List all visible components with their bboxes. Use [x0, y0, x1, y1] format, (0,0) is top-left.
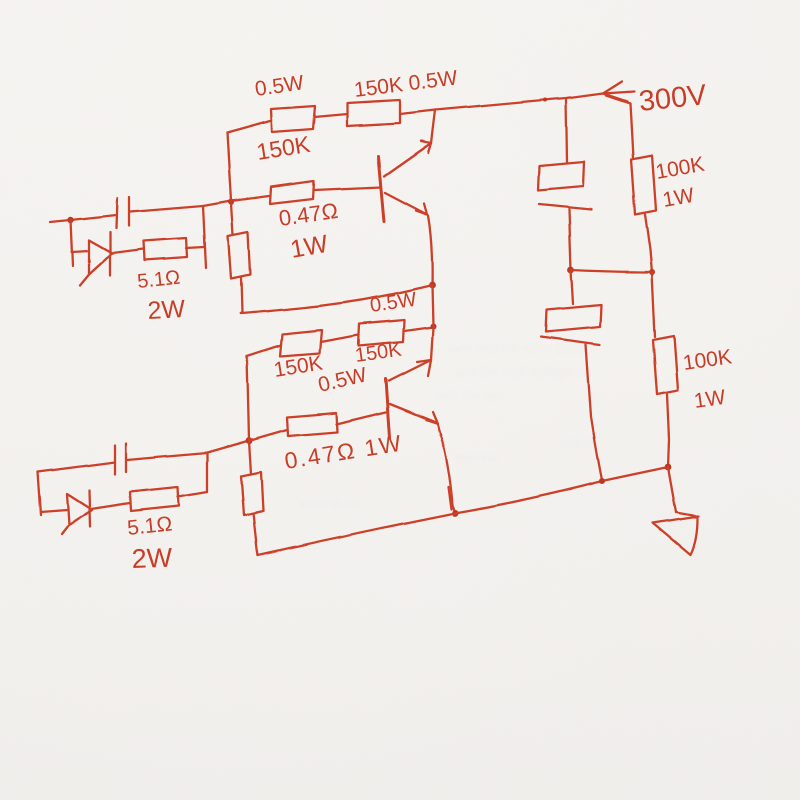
wire R4 to R5 — [321, 335, 358, 342]
svg-text:2W: 2W — [131, 543, 173, 574]
svg-text:5.1Ω: 5.1Ω — [126, 512, 173, 540]
wire node B down to VR1 — [231, 204, 233, 235]
resistor R8 100K 1W (lower right) — [653, 336, 678, 394]
wire R5.1 to right vert — [186, 247, 204, 248]
wire R6 to base Q2 — [336, 412, 386, 424]
resistor R4 150K 0.5W (lower feedback) — [280, 330, 322, 356]
wire R2 to top corner — [400, 110, 435, 114]
capacitor C1 left plate — [116, 198, 117, 228]
wire corner to R1 — [227, 121, 270, 133]
wire node H down to C4 — [571, 270, 573, 304]
wire node G down to R8 — [652, 272, 655, 337]
resistor R3 0.47ohm 1W (upper base) — [270, 181, 314, 204]
wire collector diagonal Q2 — [389, 360, 431, 381]
wire C1 to node A — [130, 206, 203, 212]
wire VR2 to bottom rail — [253, 513, 258, 555]
svg-text:then the: then the — [455, 451, 499, 465]
node A junction dot — [68, 217, 74, 223]
emitter diagonal Q2 — [390, 404, 437, 423]
wire collector diagonal Q1 — [384, 143, 431, 176]
resistor 5.1ohm 2W (lower) — [130, 487, 179, 511]
node G junction dot — [649, 269, 655, 275]
diode D1 — [80, 232, 112, 285]
capacitor C3 top plate box — [538, 162, 584, 190]
svg-text:sure that the other parts: sure that the other parts — [447, 340, 586, 355]
wire input lower left — [38, 462, 115, 472]
transistor Q1 bar — [378, 156, 384, 222]
svg-text:1W: 1W — [692, 386, 727, 413]
capacitor C4 bottom plate — [541, 337, 600, 345]
wire bottom rail — [258, 467, 668, 555]
wire R7 to node G — [645, 214, 652, 272]
resistor R6 0.47ohm 1W (lower base) — [287, 413, 337, 436]
wire C2 to node D — [127, 441, 249, 460]
svg-text:more of the: more of the — [300, 497, 361, 511]
wire node D up feedback (lower) — [247, 356, 249, 440]
svg-text:2W: 2W — [147, 295, 186, 325]
arrow head 300V supply — [603, 81, 634, 101]
wire to diode D1 — [72, 251, 89, 252]
wire node B up to feedback row — [227, 133, 231, 201]
capacitor C2 left plate — [114, 445, 116, 474]
resistor R5 150K 0.5W (lower feedback) — [358, 320, 404, 346]
node D junction dot — [246, 438, 253, 445]
wire C4 to bottom rail — [586, 345, 602, 480]
wire node C to node E — [432, 285, 433, 326]
arrow on collector Q2 — [417, 360, 431, 376]
wire lower bypass right vert — [206, 453, 208, 492]
diode D2 — [62, 490, 92, 534]
resistor R2 150K 0.5W (upper feedback) — [347, 100, 400, 126]
arrow on emitter Q2 — [426, 412, 438, 424]
wire rail down to C3 — [566, 98, 567, 162]
svg-text:and the high voltage on: and the high voltage on — [455, 364, 590, 379]
capacitor C3 bottom plate — [539, 204, 591, 209]
node H junction dot — [568, 267, 575, 274]
node I junction dot — [599, 478, 605, 484]
wire collector drop Q1 — [431, 110, 435, 143]
node B junction dot — [228, 199, 234, 205]
transistor Q2 bar — [386, 379, 390, 438]
wire node D to R6 — [249, 430, 287, 441]
rail ink blob — [543, 98, 547, 102]
wire R5.1 lower to right vert — [178, 492, 207, 497]
wire to diode D2 — [41, 510, 67, 512]
wire D2 to R 5.1 lower — [91, 503, 130, 509]
capacitor C1 right plate — [128, 197, 130, 226]
resistor 5.1ohm 2W (upper) — [143, 238, 187, 260]
wire right vert of bypass loop — [203, 206, 206, 268]
wire node A to node B — [203, 201, 231, 206]
wire D1 to R 5.1 — [112, 249, 143, 253]
wire top supply rail — [435, 93, 603, 110]
wire node D down to VR2 — [249, 441, 251, 474]
wire R3 to base Q1 — [314, 187, 381, 190]
node F junction dot — [452, 510, 459, 517]
node C junction dot — [429, 282, 436, 289]
wire node B to R3 — [231, 196, 269, 201]
svg-text:5.1Ω: 5.1Ω — [136, 267, 181, 293]
wire R8 to node J — [667, 394, 669, 467]
arrow on collector Q1 — [421, 141, 431, 153]
wire R5 to node E — [404, 327, 433, 331]
node E junction dot — [430, 323, 436, 329]
wire emitter Q1 down — [428, 216, 432, 285]
svg-text:with the low: with the low — [435, 388, 505, 403]
wire left branch down (lower) — [38, 472, 41, 515]
wire node H to node G — [571, 270, 652, 272]
wire collector drop Q2 — [431, 327, 433, 360]
wire doubled stroke near emitter bottom — [448, 487, 451, 509]
resistor R7 100K 1W (upper right) — [631, 156, 656, 214]
ground symbol — [653, 512, 698, 554]
arrow on emitter Q1 — [416, 204, 427, 215]
resistor VR2 (lower left vertical) — [241, 472, 263, 515]
wire supply to R7 — [606, 95, 633, 159]
node J junction dot — [665, 464, 672, 471]
svg-text:and all: and all — [560, 436, 595, 450]
wire VR1 to bottom rail — [241, 278, 242, 313]
resistor VR1 (upper left vertical) — [228, 232, 250, 279]
emitter diagonal Q1 — [385, 193, 427, 215]
wire corner to R4 — [247, 345, 281, 356]
capacitor C4 top plate box — [546, 305, 601, 332]
wire input upper left — [50, 215, 116, 222]
resistor R1 150K 0.5W (upper feedback) — [271, 106, 315, 132]
wire upper stage bottom rail — [240, 285, 432, 313]
wire C3 to node H — [569, 209, 571, 270]
wire ground stem — [668, 467, 676, 512]
wire R1 to R2 — [314, 114, 347, 117]
wire left branch down (upper) — [71, 220, 73, 266]
wire emitter Q2 down — [438, 425, 455, 513]
capacitor C2 right plate — [125, 443, 127, 472]
